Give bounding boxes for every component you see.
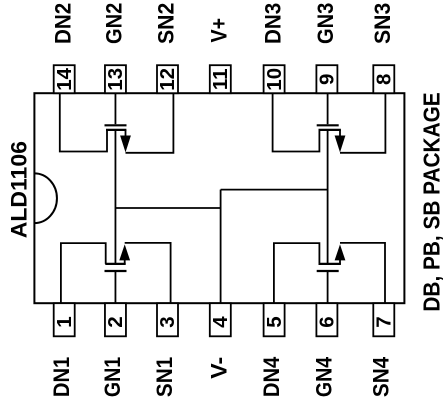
package body outline [34,93,404,303]
transistor M1 (bottom-left, pins 1-2-3) [61,243,171,303]
wire: drain loop pin5 [274,243,320,303]
wire: gate from pin6 [327,272,329,303]
wire: source loop pin7 [340,243,385,303]
svg-text:1: 1 [53,316,76,327]
pin 2 box [104,303,127,336]
wire: drain loop pin10 [273,93,320,151]
wire: substrate stem [339,260,341,264]
svg-text:SN2: SN2 [154,3,179,44]
svg-text:SN4: SN4 [369,356,394,397]
wire: substrate stem [124,260,126,264]
svg-text:2: 2 [104,316,127,327]
pin 4 box [209,303,232,336]
svg-text:V+: V+ [207,18,232,43]
svg-text:V-: V- [206,357,231,379]
wire: substrate stem [125,130,127,137]
svg-text:4: 4 [209,316,232,328]
pin 5 box [263,303,286,336]
svg-text:10: 10 [263,68,286,91]
wire: substrate stem [339,130,341,137]
svg-text:14: 14 [53,67,76,90]
svg-text:13: 13 [104,68,127,91]
pin-1 index notch [34,173,57,223]
svg-text:11: 11 [209,68,232,90]
svg-text:DN3: DN3 [260,3,285,44]
svg-text:9: 9 [316,74,339,85]
transistor M3 (top-right, pins 10-9-8) [273,93,386,153]
svg-text:7: 7 [373,316,396,327]
M3 channel bar [319,129,341,131]
M4 gate bar [317,270,339,272]
pin 11 box [209,65,232,93]
M2 source arrow [120,136,131,153]
svg-text:DB, PB, SB PACKAGE: DB, PB, SB PACKAGE [419,92,445,311]
substrate rail left (M2-M1 common) [114,130,116,264]
svg-text:GN1: GN1 [100,357,125,397]
svg-text:DN4: DN4 [259,356,284,397]
transistor M2 (top-left, pins 14-13-12) [60,93,174,153]
substrate rail right (M3-M4 common) [327,130,329,264]
svg-text:SN3: SN3 [370,3,395,44]
transistor M4 (bottom-right, pins 5-6-7) [274,243,385,303]
M3 source arrow [335,136,346,153]
svg-text:5: 5 [263,316,286,327]
wire: gate from pin9 [327,93,329,124]
M4 channel bar [319,263,341,265]
M4 source arrow [335,244,346,260]
M1 channel bar [105,263,125,265]
pin 7 box [373,303,396,336]
pin 9 box [316,65,339,93]
pin 3 box [156,303,179,336]
V- bus: right branch to M3/M4 rail [221,189,328,191]
wire: drain loop pin14 [60,93,107,151]
svg-text:GN4: GN4 [312,356,337,397]
pin 8 box [373,65,396,93]
M1 gate bar [105,270,127,272]
svg-text:8: 8 [373,74,396,85]
svg-text:ALD1106: ALD1106 [6,141,31,238]
M2 gate bar [105,124,127,126]
M1 source arrow [119,244,130,260]
wire: gate from pin13 [114,93,116,124]
wire: source loop pin12 [126,93,174,153]
M2 channel bar [106,129,126,131]
svg-text:12: 12 [156,68,179,91]
pin 6 box [316,303,339,336]
wire: drain loop pin1 [61,243,106,303]
V- bus: pin 4 riser [220,190,222,304]
svg-text:GN2: GN2 [102,3,127,44]
pin 1 box [53,303,76,336]
M3 gate bar [317,124,339,126]
svg-text:SN1: SN1 [152,357,177,397]
svg-text:DN2: DN2 [50,3,75,44]
wire: source loop pin3 [125,243,171,303]
pin 13 box [104,65,127,93]
V- bus: left branch to M1/M2 rail [115,207,220,209]
pin 10 box [263,65,286,93]
svg-text:3: 3 [156,316,179,327]
wire: gate from pin2 [114,272,116,303]
pin 12 box [156,65,179,93]
svg-text:6: 6 [316,316,339,327]
svg-text:DN1: DN1 [49,357,74,397]
pin 14 box [53,65,76,93]
wire: source loop pin8 [340,93,385,153]
svg-text:GN3: GN3 [313,3,338,44]
